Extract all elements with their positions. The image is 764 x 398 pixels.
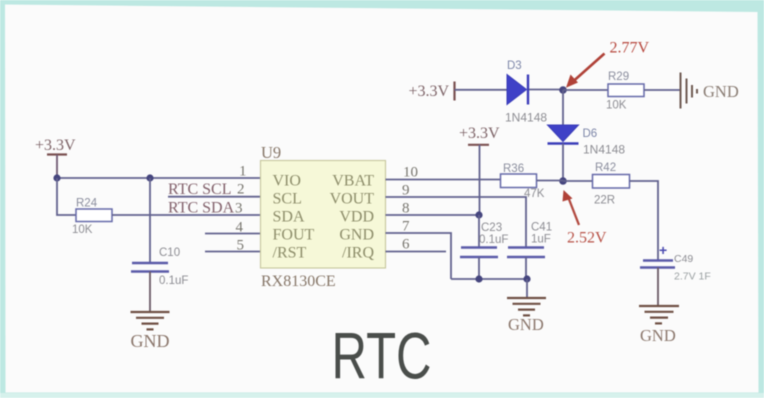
svg-text:VOUT: VOUT: [330, 191, 375, 208]
svg-text:D3: D3: [507, 60, 522, 72]
node D junction: [559, 177, 567, 185]
ground symbol (C23/C41): [507, 298, 546, 315]
svg-text:2.52V: 2.52V: [567, 230, 607, 247]
svg-text:/IRQ: /IRQ: [342, 245, 374, 262]
wire FOUT stub (pin 4): [205, 233, 261, 235]
svg-text:10: 10: [403, 165, 418, 181]
svg-text:GND: GND: [703, 82, 739, 101]
svg-text:RTC: RTC: [332, 319, 432, 393]
svg-text:C41: C41: [531, 222, 552, 234]
wire SCL net (pin 2): [168, 196, 261, 198]
wire C10 to ground: [149, 272, 151, 313]
annotation arrow to node C: [566, 54, 605, 88]
svg-text:/RST: /RST: [273, 245, 307, 262]
svg-text:C49: C49: [674, 253, 693, 265]
node B junction: [146, 174, 153, 181]
wire R29 to ground bars: [644, 89, 681, 91]
svg-text:D6: D6: [583, 128, 598, 140]
node VDD junction: [475, 211, 482, 218]
wire R36 to node D: [537, 180, 564, 182]
wire C49 to ground: [657, 268, 659, 307]
svg-text:0.1uF: 0.1uF: [479, 234, 508, 246]
svg-text:R42: R42: [595, 162, 616, 174]
wire /IRQ stub (pin 6): [386, 251, 447, 253]
svg-text:1: 1: [239, 164, 247, 180]
svg-text:R29: R29: [608, 71, 629, 83]
junction rail-C41: [523, 275, 530, 282]
power +3.3V (left): [35, 137, 76, 155]
wire rail down to ground: [526, 279, 528, 298]
resistor R42: [593, 175, 630, 189]
wire C41 to ground rail: [525, 257, 527, 279]
svg-text:GND: GND: [339, 227, 374, 244]
svg-text:RTC SDA: RTC SDA: [168, 200, 235, 217]
svg-text:+3.3V: +3.3V: [459, 125, 500, 142]
ground symbol (C49): [639, 306, 679, 323]
svg-text:GND: GND: [640, 326, 676, 345]
svg-text:C10: C10: [159, 247, 180, 259]
wire /RST stub (pin 5): [205, 251, 261, 253]
power +3.3V (top): [409, 82, 455, 101]
ground symbol (right, rotated): [681, 73, 698, 109]
wire D6 cathode to node D: [562, 144, 564, 182]
diode D6 1N4148: [548, 125, 626, 157]
wire +3.3V to D3 anode: [455, 89, 508, 91]
node A junction: [53, 174, 60, 181]
wire node C to R29: [563, 89, 608, 91]
capacitor C23: [460, 222, 508, 257]
resistor R29: [608, 84, 644, 97]
wire from +3.3V down to node A: [56, 155, 58, 179]
wire D3 cathode to node C: [529, 89, 563, 91]
svg-text:VDD: VDD: [339, 209, 374, 226]
svg-text:0.1uF: 0.1uF: [159, 275, 188, 287]
svg-text:6: 6: [402, 237, 410, 253]
svg-text:VIO: VIO: [273, 173, 301, 190]
annotation arrow to node D: [563, 190, 580, 225]
svg-text:10K: 10K: [606, 100, 627, 112]
ground symbol (C10): [131, 312, 170, 329]
svg-text:1uF: 1uF: [531, 234, 551, 246]
wire SDA net (R24 to pin 3): [112, 214, 261, 216]
svg-text:47K: 47K: [524, 188, 545, 200]
wire node C down to D6: [562, 90, 564, 125]
IC U9 RX8130CE chip body: [261, 161, 386, 269]
svg-text:3: 3: [235, 201, 243, 217]
capacitor C10: [131, 247, 188, 287]
svg-text:RTC SCL: RTC SCL: [168, 181, 232, 198]
svg-text:+3.3V: +3.3V: [35, 137, 76, 154]
svg-text:22R: 22R: [594, 195, 615, 207]
capacitor C41: [507, 222, 552, 258]
wire GND (pin 7) down to rail: [386, 233, 452, 279]
svg-text:+: +: [659, 242, 667, 258]
svg-text:GND: GND: [508, 315, 544, 334]
svg-text:SCL: SCL: [273, 191, 302, 208]
svg-text:10K: 10K: [72, 224, 93, 236]
wire VDD (pin 8): [386, 214, 480, 216]
power +3.3V (middle): [459, 125, 500, 145]
wire ground rail: [451, 278, 527, 280]
svg-text:GND: GND: [131, 331, 170, 351]
wire C23 to ground rail: [478, 257, 480, 279]
junction rail-C23: [475, 275, 482, 282]
svg-text:+3.3V: +3.3V: [409, 83, 450, 100]
svg-text:2: 2: [237, 182, 245, 198]
svg-text:RX8130CE: RX8130CE: [261, 273, 336, 290]
svg-text:VBAT: VBAT: [332, 173, 374, 190]
wire VBAT (pin 10) to R36: [386, 179, 501, 181]
node C junction: [559, 86, 567, 94]
wire node D to R42: [563, 180, 593, 182]
svg-text:1N4148: 1N4148: [505, 111, 547, 125]
diode D3 1N4148: [505, 60, 547, 125]
resistor R24: [76, 209, 112, 222]
wire VIO rail (pin 1): [57, 177, 261, 179]
wire node A down to R24: [57, 178, 76, 215]
svg-text:FOUT: FOUT: [273, 227, 315, 244]
wire VDD node down to C23: [478, 215, 480, 248]
wire VOUT (pin 9) to C41: [386, 197, 527, 248]
resistor R36: [501, 174, 537, 188]
wire R42 to C49: [630, 181, 659, 260]
capacitor C49 (polarized): [640, 242, 711, 283]
svg-text:2.77V: 2.77V: [610, 40, 650, 57]
svg-text:1N4148: 1N4148: [583, 143, 625, 157]
svg-text:R24: R24: [76, 198, 98, 210]
svg-text:SDA: SDA: [273, 209, 305, 226]
svg-text:2.7V 1F: 2.7V 1F: [674, 271, 711, 283]
svg-text:U9: U9: [261, 143, 281, 162]
svg-text:R36: R36: [503, 163, 524, 175]
wire node B down to C10: [149, 178, 151, 263]
wire +3.3V down to VDD node: [479, 145, 481, 215]
svg-text:C23: C23: [481, 222, 502, 234]
